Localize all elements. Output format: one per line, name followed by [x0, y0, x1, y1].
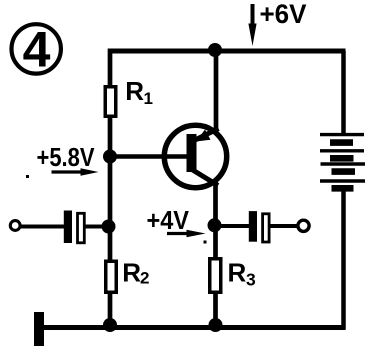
svg-text:1: 1 [144, 89, 153, 108]
label R1 [125, 76, 153, 108]
figure label "4" (circled) [12, 22, 61, 78]
wire: collector branch vertical (top segment to transistor) [214, 49, 219, 134]
svg-text:R: R [122, 258, 141, 288]
node: R3 to ground rail junction [209, 318, 223, 332]
arrow at base node (+5.8V) [52, 168, 99, 175]
svg-text:+5.8V: +5.8V [37, 142, 96, 172]
resistor R2 [106, 261, 117, 292]
svg-text:R: R [228, 258, 247, 288]
svg-text:R: R [125, 76, 144, 106]
label R2 [122, 258, 149, 288]
svg-text:4: 4 [23, 22, 51, 78]
wire: collector branch vertical (bottom segment through R3) [213, 182, 218, 330]
node: R2 to ground rail junction [103, 318, 117, 332]
node: input capacitor / divider junction [102, 220, 116, 234]
wire: base wire from divider to transistor [108, 154, 170, 159]
wire: input capacitor to divider node [84, 225, 111, 229]
wire: input terminal to coupling capacitor [20, 225, 66, 229]
node: base junction (+5.8V) [103, 150, 117, 164]
ground [34, 312, 44, 346]
node: supply rail / collector branch junction [208, 43, 222, 57]
wire: collector node to output capacitor [214, 224, 251, 228]
arrow at collector node (+4V) [167, 230, 206, 237]
terminal (output) [298, 220, 309, 231]
resistor R3 [210, 259, 221, 293]
svg-text:+4V: +4V [147, 205, 190, 235]
label R3 [228, 258, 257, 290]
wire: output capacitor to output terminal [269, 224, 298, 228]
capacitor C1 (input coupling) [64, 211, 85, 244]
battery B1 [320, 135, 365, 189]
wire: bottom ground rail [40, 325, 346, 330]
wire: +6V top supply rail [108, 49, 346, 54]
supply arrow (+6V, pointing down into rail) [248, 4, 256, 46]
svg-text:2: 2 [140, 269, 149, 288]
svg-text:+6V: +6V [260, 0, 307, 29]
resistor R1 [105, 87, 116, 117]
node: collector / output junction (+4V) [208, 218, 222, 232]
wire: right branch from battery to bottom rail [341, 190, 346, 330]
transistor Q1 (PNP, circled) [164, 125, 227, 187]
wire: right branch to battery (top segment) [341, 51, 346, 135]
wire: left vertical branch (R1/R2 divider) [108, 49, 113, 330]
svg-text:3: 3 [246, 270, 256, 290]
capacitor C2 (output coupling) [249, 211, 269, 242]
terminal (input) [10, 221, 20, 231]
